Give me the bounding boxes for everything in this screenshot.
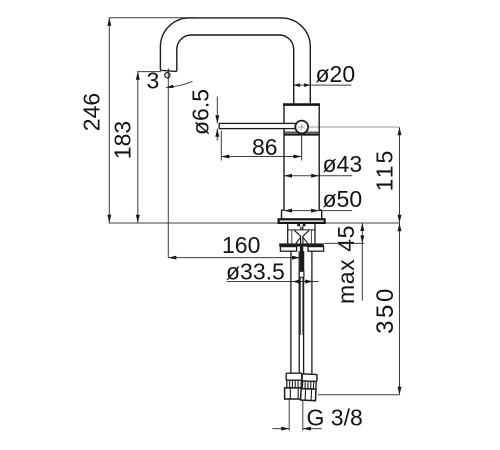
- svg-text:ø20: ø20: [316, 61, 356, 87]
- svg-text:ø33.5: ø33.5: [226, 259, 285, 285]
- svg-text:115: 115: [372, 149, 398, 192]
- svg-text:86: 86: [252, 134, 278, 160]
- svg-text:ø43: ø43: [323, 151, 363, 177]
- svg-text:ø6.5: ø6.5: [188, 89, 214, 135]
- svg-text:°: °: [163, 68, 172, 94]
- svg-text:350: 350: [372, 286, 399, 334]
- svg-text:3: 3: [147, 68, 160, 94]
- svg-text:183: 183: [110, 121, 136, 159]
- svg-text:160: 160: [222, 232, 260, 258]
- svg-text:246: 246: [79, 93, 105, 131]
- svg-text:G 3/8: G 3/8: [307, 405, 363, 431]
- svg-text:max 45: max 45: [333, 225, 359, 304]
- svg-text:ø50: ø50: [323, 186, 363, 212]
